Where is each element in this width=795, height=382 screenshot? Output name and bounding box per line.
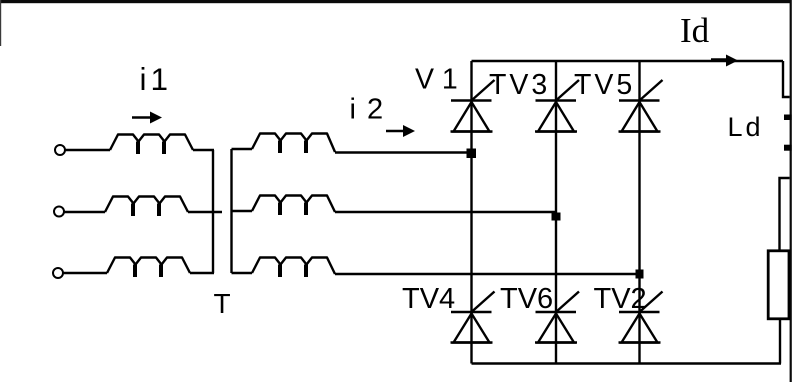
wire winding Lc to star point [190, 272, 214, 274]
svg-text:Ld: Ld [728, 112, 764, 142]
wire secondary bus to winding a2 [232, 148, 253, 150]
svg-text:Id: Id [680, 11, 710, 50]
thyristor TV6 [535, 292, 579, 343]
wire phase a2 to bridge leg 1 [335, 151, 472, 153]
secondary star bus [230, 149, 232, 273]
svg-text:TV6: TV6 [500, 283, 553, 315]
svg-text:V 1: V 1 [415, 64, 458, 96]
thyristor V1 [451, 80, 495, 132]
border frame left [0, 0, 1, 46]
bridge leg 2 [555, 61, 557, 364]
terminal B (primary phase b) [54, 207, 64, 217]
wire load to bottom bus [779, 319, 781, 364]
bridge leg 3 [638, 61, 640, 364]
border frame right [790, 0, 792, 382]
wire Ld to load [780, 178, 790, 250]
primary star bus [212, 150, 214, 273]
secondary winding a2 [252, 134, 335, 154]
secondary winding b2 [252, 196, 335, 216]
top dc bus [472, 60, 784, 62]
resistor load Rd [768, 251, 789, 319]
wire phase b2 to bridge leg 2 [335, 211, 556, 213]
node a2 junction [467, 149, 477, 159]
secondary winding c2 [252, 258, 335, 278]
thyristor TV5 [619, 80, 663, 132]
node b2 junction [552, 213, 561, 221]
wire terminal A to winding [65, 149, 110, 151]
border frame top [0, 0, 792, 3]
svg-text:i2: i2 [350, 93, 395, 125]
primary winding Lb [105, 197, 188, 217]
arrow i1 [132, 112, 162, 124]
bridge leg 1 [470, 61, 472, 364]
thyristor TV4 [451, 292, 495, 343]
terminal C (primary phase c) [53, 268, 63, 278]
wire secondary bus to winding b2 [232, 210, 253, 212]
svg-text:TV5: TV5 [574, 69, 635, 101]
arrow i2 [386, 125, 415, 137]
thyristor TV3 [535, 80, 579, 132]
wire winding La to star point [193, 149, 214, 151]
inductor Ld (clipped turns) [784, 115, 792, 121]
wire terminal B to winding [64, 211, 105, 213]
wire secondary bus to winding c2 [232, 272, 253, 274]
primary winding Lc [107, 258, 190, 278]
svg-text:TV4: TV4 [402, 283, 455, 315]
wire winding Lb across star bus [188, 211, 222, 213]
bottom dc bus [472, 362, 782, 364]
wire terminal C to winding [64, 272, 108, 274]
svg-text:TV3: TV3 [489, 69, 550, 101]
thyristor TV2 [619, 292, 663, 343]
svg-text:i1: i1 [140, 61, 173, 97]
wire phase c2 to bridge leg 3 [335, 273, 640, 275]
primary winding La [110, 135, 193, 155]
node c2 junction [636, 270, 644, 279]
svg-text:TV2: TV2 [594, 283, 647, 315]
arrow Id [711, 55, 738, 67]
terminal A (primary phase a) [55, 145, 65, 155]
svg-text:T: T [214, 288, 231, 319]
wire top bus down to Ld [783, 61, 790, 97]
